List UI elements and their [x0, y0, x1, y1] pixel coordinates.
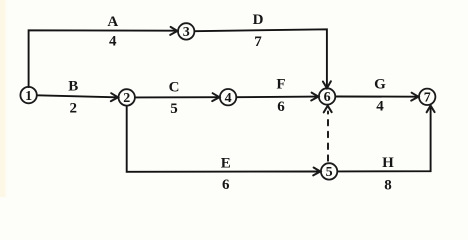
svg-text:D: D: [253, 12, 264, 28]
svg-text:5: 5: [170, 101, 178, 117]
node 4 circle: [220, 89, 236, 105]
wire node1 to node2 (activity B): [37, 95, 116, 97]
svg-text:7: 7: [424, 91, 431, 106]
wire node1 up and right to node3 (activity A): [29, 30, 176, 87]
arrowhead dashed dummy into node6 from bottom: [324, 106, 332, 113]
arrowhead into node4: [212, 93, 219, 101]
svg-text:5: 5: [326, 165, 333, 180]
arrowhead into node3: [170, 27, 177, 35]
svg-text:H: H: [382, 155, 394, 171]
svg-text:8: 8: [384, 178, 392, 194]
left page-edge yellow stripe: [0, 0, 5, 197]
svg-text:G: G: [374, 76, 386, 92]
svg-text:4: 4: [109, 33, 117, 49]
svg-text:1: 1: [25, 89, 32, 104]
svg-text:6: 6: [324, 90, 331, 105]
svg-text:4: 4: [376, 99, 384, 115]
wire node2 down and right to node5 (activity E): [127, 106, 319, 172]
svg-text:4: 4: [225, 91, 232, 106]
arrowhead into node5: [313, 168, 320, 176]
node 5 circle: [321, 163, 337, 179]
svg-text:3: 3: [183, 25, 190, 40]
arrowhead into node6 from top: [323, 81, 331, 88]
svg-text:C: C: [169, 79, 180, 95]
node 1 circle: [20, 87, 36, 103]
svg-text:E: E: [221, 156, 231, 172]
arrowhead into node2: [111, 93, 118, 101]
arrowhead into node7 from bottom: [427, 106, 435, 113]
svg-text:B: B: [68, 79, 78, 95]
arrowhead into node7 from left: [411, 93, 418, 101]
wire dashed dummy node5 to node6: [327, 112, 329, 161]
wire node6 to node7 (activity G): [336, 96, 417, 98]
svg-text:F: F: [276, 76, 285, 92]
wire node3 right and down to node6 (activity D): [195, 29, 327, 86]
svg-text:6: 6: [222, 177, 230, 193]
svg-text:2: 2: [123, 91, 130, 106]
svg-text:2: 2: [69, 100, 77, 116]
svg-text:A: A: [107, 14, 118, 30]
wire node4 to node6 (activity F): [237, 96, 317, 99]
node 7 circle: [419, 89, 435, 105]
svg-text:7: 7: [254, 34, 262, 50]
arrowhead into node6 from left: [311, 93, 318, 101]
wire node2 to node4 (activity C): [136, 96, 218, 98]
wire node5 right and up to node7 (activity H): [338, 107, 431, 171]
node 3 circle: [178, 23, 194, 39]
node 6 circle: [319, 88, 335, 104]
node 2 circle: [119, 89, 135, 105]
svg-text:6: 6: [277, 99, 285, 115]
